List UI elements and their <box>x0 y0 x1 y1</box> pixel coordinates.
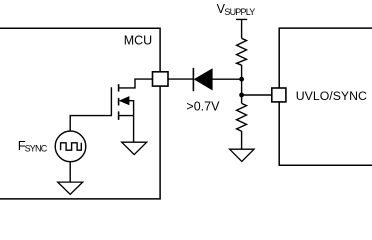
svg-text:UVLO/SYNC: UVLO/SYNC <box>296 89 367 103</box>
svg-text:SUPPLY: SUPPLY <box>224 7 255 17</box>
svg-text:SYNC: SYNC <box>25 143 48 153</box>
svg-text:>0.7V: >0.7V <box>186 99 220 113</box>
svg-text:MCU: MCU <box>124 34 152 48</box>
